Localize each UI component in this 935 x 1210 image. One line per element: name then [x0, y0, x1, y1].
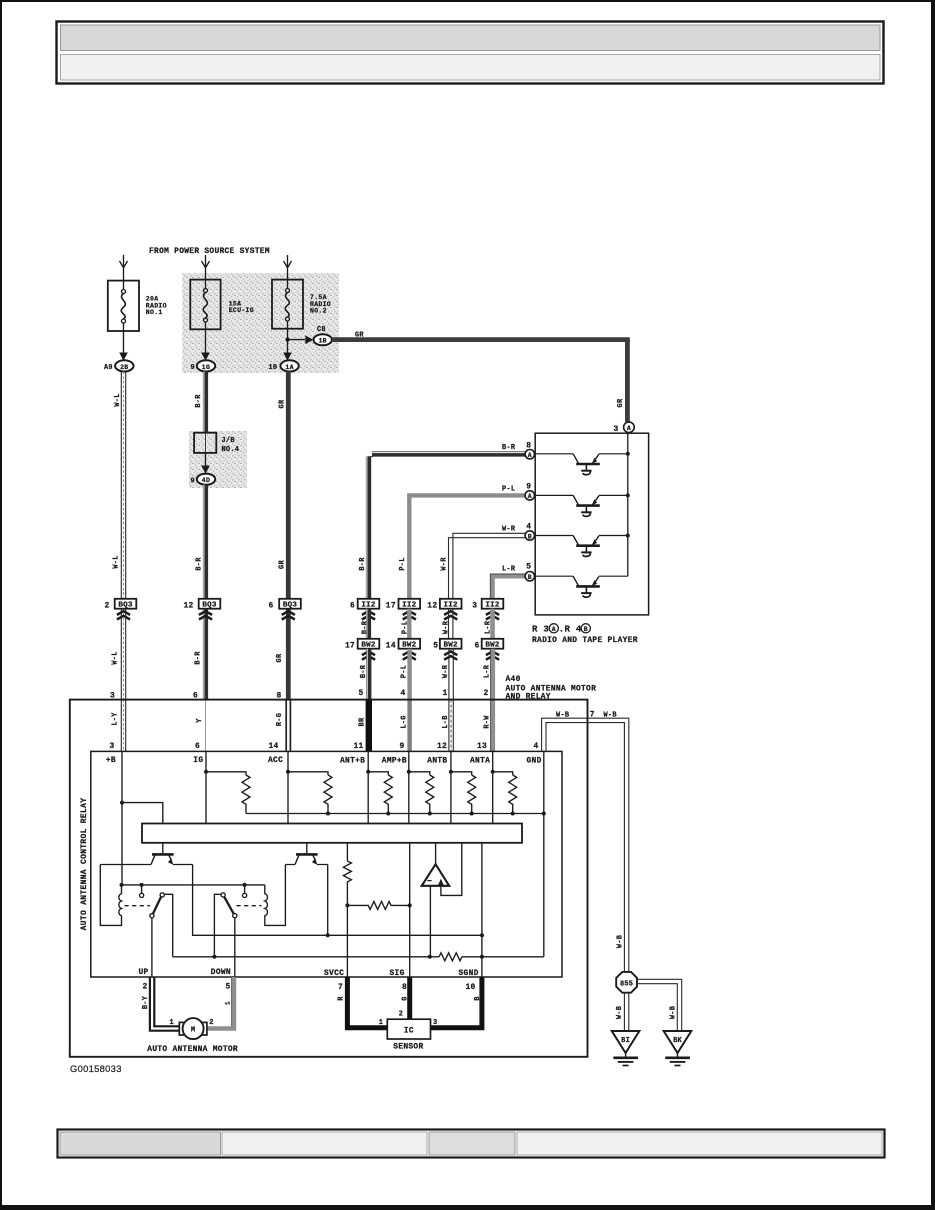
- svg-text:FROM POWER SOURCE SYSTEM: FROM POWER SOURCE SYSTEM: [149, 247, 270, 256]
- wire W-R between II2 and BW2 col6: [449, 609, 453, 639]
- ground BI: [612, 1031, 640, 1066]
- svg-text:W-B: W-B: [604, 712, 617, 720]
- wire GR top run: [332, 337, 630, 342]
- svg-text:12: 12: [437, 742, 447, 751]
- AMP+B internal column: [408, 751, 410, 823]
- svg-text:IC: IC: [404, 1026, 414, 1035]
- connector 9 1G: [191, 360, 216, 372]
- chevron below 6 II2: [362, 611, 375, 619]
- wire R-W inside A40 col7: [490, 700, 495, 752]
- wire W-R radio pin4 to col6: [449, 533, 526, 599]
- svg-text:M: M: [191, 1027, 195, 1035]
- svg-text:W-B: W-B: [556, 712, 569, 720]
- top gray bar: [61, 25, 881, 51]
- node Q2 collector: [626, 493, 630, 497]
- ANTB internal column: [450, 751, 452, 823]
- svg-text:L-Y: L-Y: [111, 712, 119, 726]
- svg-text:2: 2: [143, 983, 148, 992]
- svg-text:II2: II2: [402, 602, 417, 610]
- connector 5 BW2: [433, 639, 461, 651]
- svg-text:BQ3: BQ3: [283, 602, 298, 610]
- svg-text:2: 2: [209, 1019, 213, 1027]
- chevron below 17 II2: [403, 611, 416, 619]
- svg-text:Y: Y: [196, 718, 204, 723]
- connector 12 II2: [427, 599, 461, 611]
- wire W-R BW2 to A40 col6: [449, 649, 453, 700]
- svg-text:3: 3: [433, 1019, 437, 1027]
- power feed arrow 1: [120, 255, 128, 281]
- wire GR BQ3 to A40 box: [286, 609, 291, 700]
- svg-text:2: 2: [105, 602, 110, 611]
- svg-text:9: 9: [400, 742, 405, 751]
- wire B-Y UP to motor: [150, 977, 179, 1031]
- svg-text:9: 9: [191, 364, 195, 372]
- chevron below 14 BW2: [403, 651, 416, 659]
- svg-text:W-R: W-R: [442, 664, 450, 678]
- radio and tape player box: [535, 433, 648, 615]
- resistor on AMP+B: [409, 772, 430, 775]
- svg-text:4D: 4D: [202, 477, 210, 484]
- svg-text:1: 1: [443, 689, 448, 698]
- svg-text:B-R: B-R: [195, 394, 203, 408]
- resistor on ANTA: [493, 772, 513, 775]
- wire B-R radio pin8 to col4: [367, 453, 525, 599]
- svg-text:3: 3: [110, 742, 115, 751]
- svg-text:.R 4: .R 4: [559, 625, 582, 635]
- resistor SVCC to SIG: [347, 901, 409, 909]
- wire DOWN to motor: [207, 977, 234, 1029]
- svg-text:B: B: [474, 996, 482, 1000]
- svg-text:ANT+B: ANT+B: [340, 757, 365, 766]
- svg-text:1: 1: [225, 1001, 232, 1005]
- radio pin 4 B: [525, 531, 534, 541]
- op-amp U1: [422, 843, 462, 957]
- emitter rail: [193, 865, 482, 936]
- svg-text:6: 6: [195, 742, 200, 751]
- svg-text:W-B: W-B: [616, 1006, 624, 1019]
- connector 2 BQ3: [105, 599, 137, 611]
- svg-text:3: 3: [614, 425, 619, 434]
- svg-text:17: 17: [345, 642, 355, 651]
- IG internal column: [205, 751, 207, 823]
- svg-text:B-R: B-R: [196, 557, 204, 571]
- svg-text:SENSOR: SENSOR: [393, 1043, 423, 1052]
- wire B-R column (1G down to J/B): [204, 372, 206, 433]
- wire G SIG to sensor: [407, 977, 412, 1019]
- page scan frame: [0, 0, 935, 2]
- svg-text:17: 17: [386, 602, 396, 611]
- svg-text:BW2: BW2: [444, 642, 459, 650]
- chevron below 17 BW2: [362, 651, 375, 659]
- svg-text:ACC: ACC: [268, 756, 283, 765]
- ACC internal column: [287, 751, 289, 823]
- svg-text:B: B: [528, 574, 532, 581]
- svg-text:AND RELAY: AND RELAY: [506, 692, 551, 701]
- svg-text:7: 7: [590, 711, 595, 720]
- svg-text:R-W: R-W: [484, 715, 492, 729]
- svg-text:W-L: W-L: [113, 555, 121, 568]
- svg-text:G: G: [402, 996, 410, 1000]
- coil bus: [122, 884, 265, 886]
- power feed arrow 2: [202, 255, 210, 280]
- bottom footer bar frame: [58, 1130, 885, 1158]
- svg-text:2: 2: [399, 1011, 403, 1019]
- transistor Q2 (radio): [535, 495, 628, 516]
- ANT+B internal column: [367, 751, 369, 823]
- sensor IC box: [379, 1011, 438, 1040]
- svg-text:II2: II2: [361, 602, 376, 610]
- arrow into 2B: [119, 353, 128, 361]
- svg-text:R 3: R 3: [532, 625, 549, 635]
- connector 9 4D: [191, 474, 216, 486]
- footer segment 2: [222, 1132, 427, 1155]
- svg-text:B: B: [528, 533, 532, 540]
- svg-text:W-B: W-B: [617, 935, 625, 948]
- svg-text:4: 4: [534, 742, 539, 751]
- wire BR inside A40 col4: [366, 700, 372, 752]
- top header bar frame: [57, 22, 884, 84]
- stipple shade around J/B NO.4: [189, 431, 247, 488]
- svg-text:UP: UP: [139, 968, 149, 977]
- transistor Q5 (relay left): [100, 843, 192, 865]
- arrow into 1G: [201, 353, 210, 361]
- wire B-R BQ3 to A40 box: [204, 609, 206, 700]
- resistor on ANT+B: [368, 772, 388, 775]
- connector 10 1A: [269, 360, 299, 372]
- ANTA internal column: [492, 751, 494, 823]
- wire B-R BW2 to A40 col4: [367, 649, 369, 700]
- svg-text:ECU-IG: ECU-IG: [229, 307, 254, 314]
- svg-text:SIG: SIG: [390, 969, 405, 978]
- svg-text:+B: +B: [106, 756, 116, 765]
- svg-text:6: 6: [269, 602, 274, 611]
- wire R-G inside A40: [286, 700, 290, 752]
- svg-text:BK: BK: [673, 1037, 682, 1045]
- node Q1 collector: [626, 452, 630, 456]
- wire P-L between II2 and BW2 col5: [407, 609, 411, 639]
- svg-text:NO.4: NO.4: [222, 446, 240, 454]
- svg-text:A: A: [528, 493, 532, 500]
- wire B-R between II2 and BW2 col4: [367, 609, 369, 639]
- svg-text:BQ3: BQ3: [118, 602, 133, 610]
- svg-text:II2: II2: [485, 602, 500, 610]
- svg-text:B-R: B-R: [194, 651, 202, 665]
- ground BK: [664, 1031, 692, 1066]
- connector 855: [616, 972, 637, 993]
- svg-text:1: 1: [170, 1019, 174, 1027]
- resistor on ACC: [288, 772, 328, 775]
- svg-text:B-R: B-R: [359, 557, 367, 571]
- mech link dashes: [125, 905, 151, 907]
- svg-text:ANTB: ANTB: [427, 757, 447, 766]
- svg-text:4: 4: [401, 689, 406, 698]
- wire P-L BW2 to A40 col5: [407, 649, 411, 700]
- IC bus bar: [142, 824, 522, 843]
- svg-text:II2: II2: [444, 602, 459, 610]
- svg-text:P-L: P-L: [399, 557, 407, 570]
- svg-text:1: 1: [379, 1019, 383, 1027]
- svg-text:6: 6: [350, 602, 355, 611]
- svg-text:B: B: [584, 626, 588, 633]
- svg-text:2B: 2B: [120, 364, 128, 371]
- svg-text:BW2: BW2: [485, 642, 500, 650]
- wire B SGND to sensor: [431, 977, 482, 1028]
- transistor Q6 (relay right): [285, 843, 327, 865]
- relay coil L2: [265, 865, 286, 926]
- svg-text:W-L: W-L: [114, 393, 122, 406]
- svg-text:B-R: B-R: [502, 444, 516, 452]
- fuse 7.5A RADIO NO.2: [272, 280, 331, 329]
- fuse 20A RADIO NO.1: [108, 281, 167, 331]
- resistor on IG: [206, 772, 246, 775]
- connector 17 BW2: [345, 639, 379, 651]
- svg-text:855: 855: [620, 980, 633, 988]
- svg-text:GND: GND: [527, 757, 542, 766]
- switch SW2 (DOWN): [214, 893, 237, 977]
- transistor Q3 (radio): [535, 536, 628, 557]
- contact stub 2: [244, 885, 246, 893]
- power feed arrow 3: [284, 255, 292, 280]
- radio collector bus: [627, 433, 629, 577]
- branch to C8: [288, 339, 306, 341]
- svg-text:L-R: L-R: [484, 664, 492, 678]
- SIG internal column: [409, 843, 411, 977]
- svg-text:A9: A9: [104, 364, 113, 372]
- wire GR drop to radio pin 3: [625, 340, 630, 422]
- svg-text:AUTO ANTENNA CONTROL RELAY: AUTO ANTENNA CONTROL RELAY: [80, 798, 89, 931]
- svg-text:L-G: L-G: [401, 715, 409, 728]
- svg-text:NO.2: NO.2: [310, 308, 327, 315]
- svg-text:L-R: L-R: [502, 566, 516, 574]
- svg-text:P-L: P-L: [502, 485, 515, 493]
- node Q3 collector: [626, 534, 630, 538]
- svg-text:W-R: W-R: [443, 620, 451, 634]
- connector 14 BW2: [386, 639, 420, 651]
- svg-text:5: 5: [433, 642, 438, 651]
- svg-text:BQ3: BQ3: [202, 602, 217, 610]
- svg-text:5: 5: [226, 983, 231, 992]
- svg-text:1G: 1G: [202, 364, 210, 371]
- svg-text:GR: GR: [279, 399, 287, 408]
- svg-text:14: 14: [269, 742, 279, 751]
- svg-text:L-B: L-B: [442, 715, 450, 728]
- svg-text:ANTA: ANTA: [470, 757, 490, 766]
- contact stub 1: [141, 885, 143, 893]
- svg-text:10: 10: [269, 364, 278, 372]
- switch rail with resistor: [173, 956, 439, 958]
- junction on fuse3 wire: [287, 329, 289, 353]
- radio pin 8 A: [525, 450, 534, 460]
- relay inner box: [91, 751, 562, 977]
- svg-text:W-L: W-L: [112, 651, 120, 664]
- connector 3 II2: [472, 599, 503, 611]
- svg-text:RADIO AND TAPE PLAYER: RADIO AND TAPE PLAYER: [532, 636, 638, 645]
- svg-text:AMP+B: AMP+B: [382, 757, 407, 766]
- fuse 15A ECU-IG: [190, 280, 254, 330]
- SGND internal column: [481, 843, 483, 977]
- svg-text:W-B: W-B: [669, 1006, 677, 1019]
- svg-text:BR: BR: [359, 717, 367, 726]
- chevron below 12 II2: [444, 611, 457, 619]
- switch SW1 (UP): [150, 893, 173, 977]
- svg-text:SGND: SGND: [459, 969, 479, 978]
- footer segment 1: [60, 1132, 221, 1155]
- resistor bottom rail: [246, 813, 544, 815]
- svg-text:GR: GR: [355, 331, 364, 339]
- svg-text:9: 9: [191, 478, 195, 486]
- wire fuse1 to connector: [123, 331, 125, 353]
- svg-text:W-R: W-R: [440, 557, 448, 571]
- transistor Q4 (radio): [535, 576, 628, 597]
- svg-text:BW2: BW2: [402, 642, 417, 650]
- connector 12 BQ3: [184, 599, 221, 611]
- connector 6 II2: [350, 599, 379, 611]
- svg-text:A40: A40: [506, 675, 521, 684]
- +B branch to IC bar: [122, 803, 163, 824]
- svg-text:G00158033: G00158033: [70, 1063, 122, 1074]
- svg-text:13: 13: [477, 742, 487, 751]
- svg-text:DOWN: DOWN: [211, 968, 231, 977]
- svg-text:5: 5: [526, 563, 531, 572]
- chevron below 6 BW2: [486, 651, 499, 659]
- svg-text:14: 14: [386, 642, 396, 651]
- resistor on ANTB: [451, 772, 472, 775]
- top light bar: [61, 55, 881, 81]
- +B internal column: [121, 751, 123, 885]
- wire L-R radio pin5 to col7: [493, 576, 526, 599]
- connector 6 BQ3: [269, 599, 301, 611]
- svg-text:1B: 1B: [318, 338, 326, 345]
- svg-text:SVCC: SVCC: [324, 969, 344, 978]
- svg-text:GR: GR: [617, 398, 625, 407]
- wire 855 branch to ground BK: [637, 979, 682, 1031]
- connector 6 BW2: [475, 639, 504, 651]
- transistor Q1 (radio): [535, 454, 628, 475]
- wire Y inside A40: [205, 700, 207, 752]
- footer segment 3: [429, 1132, 515, 1155]
- SVCC internal column with resistor: [346, 843, 348, 861]
- svg-text:P-L: P-L: [401, 621, 409, 634]
- chevron below 3 II2: [486, 611, 499, 619]
- wire L-R BW2 to A40 col7: [490, 649, 495, 700]
- GND internal column: [543, 751, 545, 956]
- arrow into 4D: [201, 466, 210, 474]
- connector 17 II2: [386, 599, 420, 611]
- wire P-L radio pin9 to col5: [409, 495, 525, 598]
- svg-text:1A: 1A: [285, 364, 293, 371]
- relay coil L1: [100, 865, 121, 926]
- svg-text:11: 11: [354, 742, 364, 751]
- svg-text:C8: C8: [317, 326, 326, 334]
- svg-text:NO.1: NO.1: [146, 309, 163, 316]
- footer segment 4: [517, 1132, 882, 1155]
- svg-text:8: 8: [402, 983, 407, 992]
- svg-text:12: 12: [427, 602, 437, 611]
- svg-text:R: R: [338, 996, 346, 1001]
- svg-text:B-Y: B-Y: [142, 995, 150, 1009]
- wire fuse2 to connector: [205, 329, 207, 352]
- svg-text:BW2: BW2: [361, 642, 376, 650]
- wire W-B GND out of relay: [542, 718, 629, 971]
- wire GR column (1A down to BQ3): [286, 371, 291, 599]
- svg-text:GR: GR: [276, 653, 284, 662]
- connector C8 1B: [314, 326, 332, 345]
- chevron below 2 BQ3: [117, 611, 130, 619]
- chevron below 6 BQ3: [282, 611, 295, 619]
- wire L-B inside A40 col6: [449, 700, 453, 752]
- wire L-R between II2 and BW2 col7: [490, 609, 495, 639]
- connector A9 2B: [104, 360, 134, 372]
- svg-text:P-L: P-L: [401, 665, 409, 678]
- svg-text:W-R: W-R: [502, 526, 516, 534]
- svg-text:R-G: R-G: [276, 713, 284, 726]
- svg-text:GR: GR: [279, 560, 287, 569]
- svg-text:5: 5: [359, 689, 364, 698]
- wire W-L column (A9 2B down to BQ3): [121, 372, 125, 752]
- svg-text:A: A: [528, 452, 532, 459]
- arrow into 1A: [283, 353, 292, 361]
- svg-text:BI: BI: [621, 1037, 630, 1045]
- chevron below 12 BQ3: [199, 611, 212, 619]
- svg-text:L-R: L-R: [485, 620, 493, 634]
- svg-text:6: 6: [475, 642, 480, 651]
- svg-text:AUTO ANTENNA MOTOR: AUTO ANTENNA MOTOR: [147, 1045, 238, 1054]
- svg-text:J/B: J/B: [222, 437, 235, 445]
- radio pin 5 B: [525, 572, 534, 582]
- svg-text:B-R: B-R: [360, 664, 368, 678]
- motor M1 auto antenna motor: [170, 1018, 214, 1039]
- wire J/B to 4D: [205, 453, 207, 466]
- wire 855 to ground BI: [624, 993, 628, 1031]
- svg-text:A: A: [552, 626, 556, 633]
- wire L-G inside A40 col5: [407, 700, 411, 752]
- junction block J/B NO.4: [194, 433, 239, 454]
- svg-text:12: 12: [184, 602, 194, 611]
- A40 outer box: [70, 700, 588, 1057]
- svg-text:A: A: [627, 425, 631, 432]
- radio pin 3 A circle: [614, 422, 635, 434]
- stipple shade around ECU-IG / RADIO NO.2 fuses: [182, 273, 339, 373]
- radio designation R3A R4B: [532, 624, 590, 635]
- svg-text:IG: IG: [193, 756, 203, 765]
- wire B-R 4D to BQ3: [204, 485, 206, 599]
- radio pin 9 A: [525, 491, 534, 501]
- svg-text:10: 10: [466, 983, 476, 992]
- svg-text:3: 3: [472, 602, 477, 611]
- svg-text:B-R: B-R: [362, 620, 370, 634]
- chevron below 5 BW2: [444, 651, 457, 659]
- svg-text:7: 7: [338, 983, 343, 992]
- wire R SVCC to sensor: [347, 977, 387, 1028]
- svg-text:2: 2: [484, 689, 489, 698]
